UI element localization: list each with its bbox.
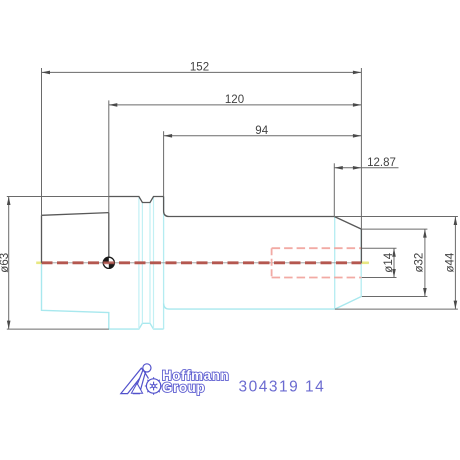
bore hidden line bottom [272, 277, 362, 279]
svg-text:ø14: ø14 [383, 252, 395, 272]
svg-text:ø63: ø63 [0, 253, 11, 273]
cyan groove edge vertical 1 [138, 198, 140, 330]
taper top line [42, 213, 109, 216]
flange right step and fillet [164, 197, 169, 217]
flange left vertical [108, 213, 110, 263]
extension line dia32 top [362, 228, 428, 230]
dimension line 94 [164, 135, 362, 137]
extension line 12.87 left [333, 163, 335, 216]
logo mark gear wheel [146, 379, 160, 393]
dimension line dia14 [393, 248, 395, 277]
cyan groove edge vertical 4 [153, 198, 155, 330]
centerline yellow dash left [36, 261, 41, 264]
svg-text:ø32: ø32 [413, 253, 425, 273]
centerline red dash over center mark [103, 261, 114, 264]
logo mark leaning figure band [121, 364, 161, 394]
svg-text:152: 152 [190, 62, 209, 74]
cyan lower body outline [42, 263, 164, 329]
svg-text:304319 14: 304319 14 [239, 378, 326, 395]
arrow 152 right [353, 71, 362, 75]
dimension line 152 [42, 71, 362, 73]
flange top with V-groove [109, 197, 164, 203]
arrow dia32 top [423, 229, 427, 238]
extension line dia32 bottom [362, 296, 428, 298]
extension line dia63 bottom [7, 328, 109, 330]
extension line dia14 bottom [362, 277, 397, 279]
svg-text:Group: Group [162, 380, 205, 395]
arrow dia44 bottom [454, 301, 458, 310]
centerline yellow dash right [362, 261, 369, 264]
svg-text:94: 94 [255, 125, 268, 137]
cyan right end face vertical [334, 217, 336, 310]
extension line 94 left [163, 131, 165, 196]
logo gear teeth and star [145, 377, 163, 395]
bore hidden line top [272, 247, 362, 249]
centerline red dashes [42, 261, 362, 264]
dimension line dia63 [8, 197, 10, 330]
logo mark arm [144, 372, 148, 379]
dimension line 12.87 with leader [334, 167, 398, 169]
arrow 12.87 left [334, 166, 343, 170]
extension line 120 left [108, 100, 110, 212]
logo mark leg [134, 370, 146, 394]
arrow 94 right [353, 134, 362, 138]
extension line dia63 top [7, 196, 109, 198]
body left face upper [41, 215, 43, 262]
cyan cylinder bottom with fillet [164, 304, 335, 310]
arrow 152 left [42, 71, 51, 75]
svg-text:120: 120 [225, 94, 244, 106]
cyan chamfer lower [335, 297, 361, 310]
arrow 12.87 right [353, 166, 362, 170]
cyan tip face vertical [360, 229, 362, 296]
tip face upper [360, 229, 362, 263]
logo mark head circle [143, 364, 151, 372]
centerline base thin line [37, 262, 370, 264]
extension line dia14 top [362, 247, 397, 249]
extension line 152 left [41, 68, 43, 215]
cyan flange right face vertical [163, 197, 165, 330]
arrow dia32 bottom [423, 288, 427, 297]
bore hidden line left end [271, 248, 273, 277]
logo mark inner triangle [131, 383, 142, 393]
svg-text:12.87: 12.87 [367, 157, 396, 169]
cyan groove edge vertical 3 [149, 203, 151, 324]
chamfer upper [334, 217, 361, 230]
dimension line 120 [109, 104, 362, 106]
extension line dia44 top [334, 216, 458, 218]
cylinder top line [169, 216, 334, 218]
arrow 120 right [353, 103, 362, 107]
dimension line dia44 [454, 217, 456, 310]
arrow dia14 top [392, 248, 396, 257]
extension line right common [360, 68, 362, 229]
svg-text:ø44: ø44 [444, 252, 456, 272]
arrow dia44 top [454, 217, 458, 226]
arrow dia63 top [7, 197, 11, 206]
extension line dia44 bottom [335, 308, 458, 310]
arrow dia63 bottom [7, 321, 11, 330]
arrow 94 left [164, 134, 173, 138]
center mark symbol [103, 257, 114, 268]
cyan groove edge vertical 2 [141, 203, 143, 324]
arrow dia14 bottom [392, 269, 396, 278]
arrow 120 left [109, 103, 118, 107]
dimension line dia32 [424, 229, 426, 296]
